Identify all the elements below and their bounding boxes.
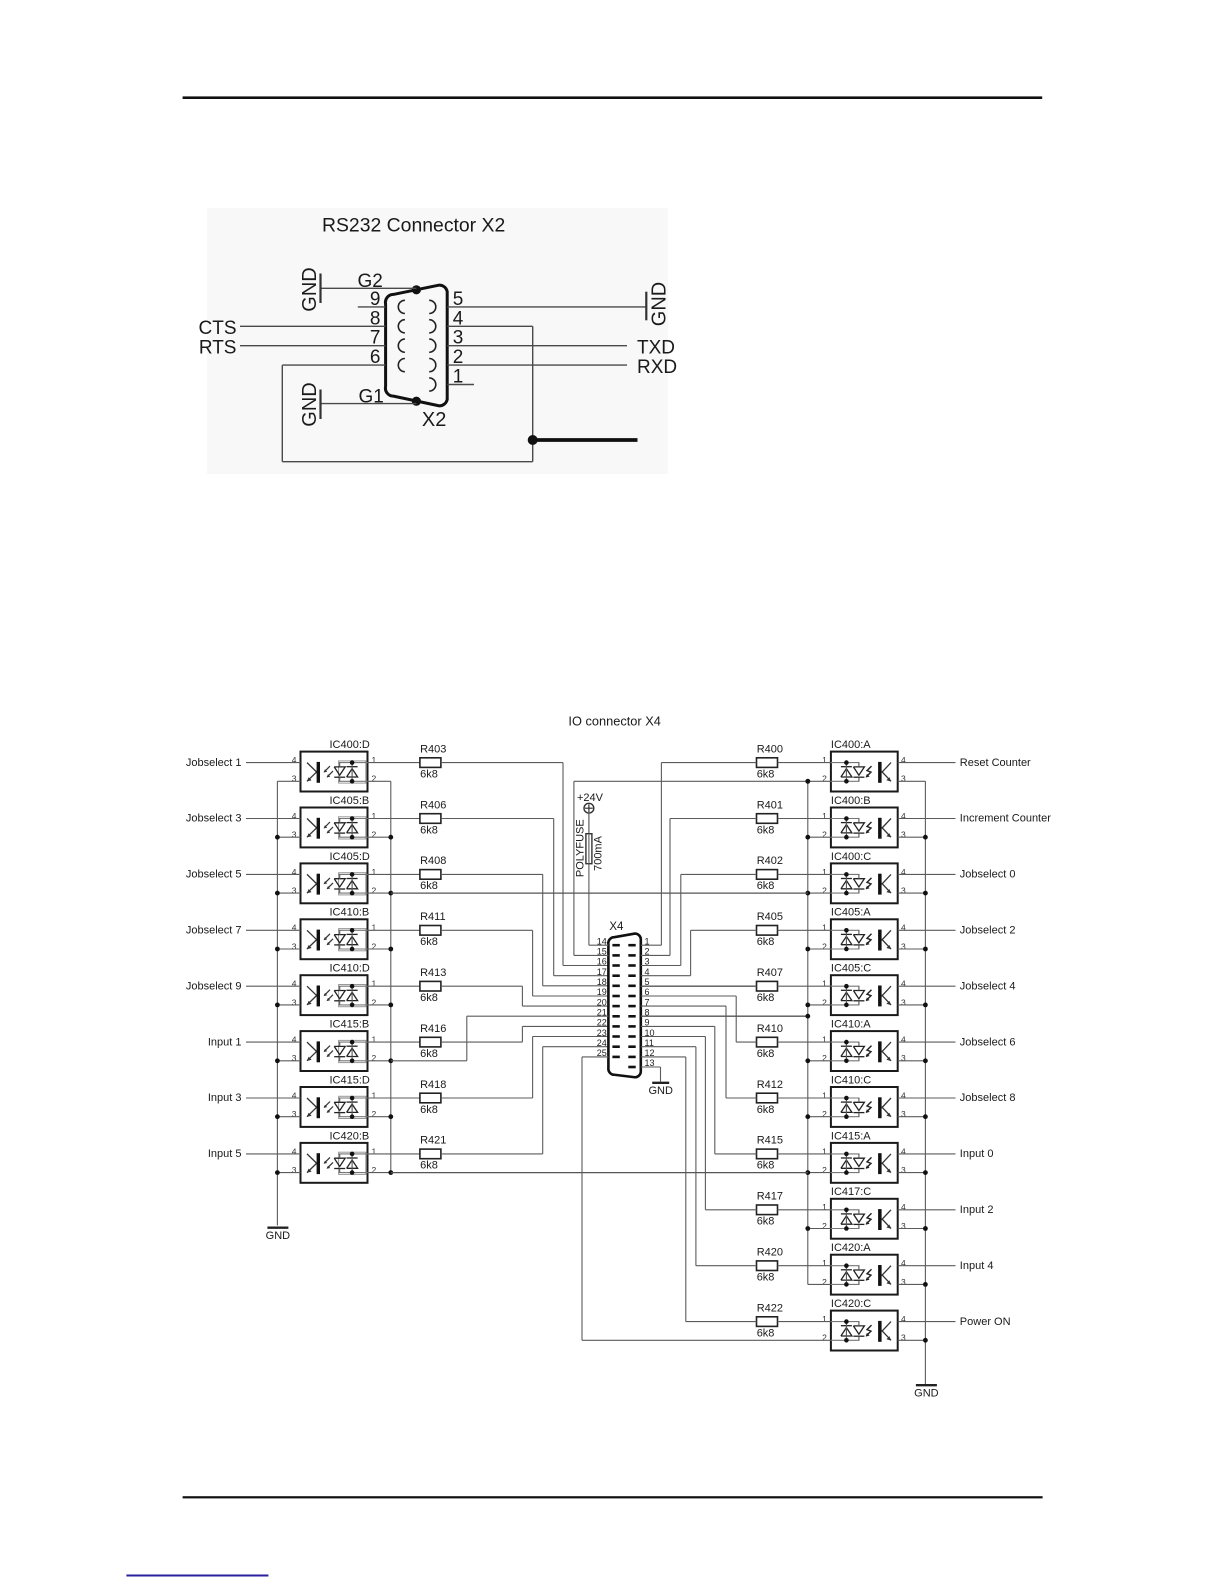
svg-text:GND: GND: [649, 282, 671, 326]
svg-text:IC405:D: IC405:D: [330, 851, 370, 863]
svg-text:1: 1: [822, 1314, 827, 1324]
svg-text:6k8: 6k8: [420, 1104, 438, 1116]
svg-text:3: 3: [901, 1333, 906, 1343]
svg-text:Jobselect 9: Jobselect 9: [186, 980, 242, 992]
svg-text:R418: R418: [420, 1079, 446, 1091]
svg-text:6k8: 6k8: [757, 992, 775, 1004]
svg-text:4: 4: [292, 1090, 297, 1100]
svg-text:23: 23: [597, 1028, 607, 1038]
svg-text:3: 3: [901, 997, 906, 1007]
svg-text:R413: R413: [420, 967, 446, 979]
svg-text:6k8: 6k8: [757, 824, 775, 836]
svg-text:Reset Counter: Reset Counter: [960, 757, 1031, 769]
svg-text:4: 4: [292, 755, 297, 765]
svg-text:1: 1: [822, 755, 827, 765]
svg-text:17: 17: [597, 967, 607, 977]
svg-text:2: 2: [822, 1109, 827, 1119]
svg-text:1: 1: [822, 923, 827, 933]
svg-text:1: 1: [453, 367, 464, 388]
svg-text:Jobselect 2: Jobselect 2: [960, 925, 1016, 937]
svg-text:R403: R403: [420, 743, 446, 755]
svg-text:6k8: 6k8: [757, 1327, 775, 1339]
svg-text:3: 3: [901, 1109, 906, 1119]
svg-text:3: 3: [292, 941, 297, 951]
svg-text:TXD: TXD: [637, 338, 675, 359]
svg-text:1: 1: [822, 1146, 827, 1156]
svg-text:700mA: 700mA: [593, 835, 605, 871]
svg-text:6k8: 6k8: [757, 768, 775, 780]
svg-text:2: 2: [372, 1109, 377, 1119]
svg-text:R410: R410: [757, 1023, 783, 1035]
svg-text:6k8: 6k8: [757, 1216, 775, 1228]
svg-text:6k8: 6k8: [757, 936, 775, 948]
svg-text:IC410:B: IC410:B: [330, 907, 370, 919]
svg-text:18: 18: [597, 977, 607, 987]
svg-text:4: 4: [901, 1090, 906, 1100]
svg-text:3: 3: [292, 1053, 297, 1063]
svg-text:2: 2: [822, 774, 827, 784]
svg-text:+24V: +24V: [577, 792, 604, 804]
svg-text:2: 2: [372, 997, 377, 1007]
svg-text:R411: R411: [420, 911, 445, 923]
svg-text:24: 24: [597, 1038, 607, 1048]
svg-text:1: 1: [372, 1035, 377, 1045]
svg-text:Jobselect 3: Jobselect 3: [186, 813, 242, 825]
svg-text:R400: R400: [757, 743, 783, 755]
svg-text:1: 1: [822, 1090, 827, 1100]
svg-text:IC405:B: IC405:B: [330, 795, 370, 807]
svg-text:6k8: 6k8: [420, 936, 438, 948]
svg-text:R420: R420: [757, 1247, 783, 1259]
svg-text:4: 4: [292, 811, 297, 821]
svg-text:Power ON: Power ON: [960, 1316, 1011, 1328]
svg-text:1: 1: [372, 867, 377, 877]
svg-text:1: 1: [372, 811, 377, 821]
svg-text:3: 3: [901, 886, 906, 896]
svg-text:2: 2: [372, 830, 377, 840]
svg-text:3: 3: [292, 830, 297, 840]
svg-text:20: 20: [597, 997, 607, 1007]
svg-text:Increment Counter: Increment Counter: [960, 813, 1051, 825]
svg-text:2: 2: [372, 1165, 377, 1175]
svg-text:3: 3: [901, 1277, 906, 1287]
svg-text:3: 3: [292, 886, 297, 896]
svg-text:G1: G1: [359, 387, 384, 408]
svg-text:1: 1: [822, 1202, 827, 1212]
svg-text:6k8: 6k8: [757, 880, 775, 892]
svg-text:GND: GND: [648, 1085, 673, 1097]
svg-text:4: 4: [292, 923, 297, 933]
svg-text:GND: GND: [914, 1388, 939, 1400]
svg-text:2: 2: [453, 347, 464, 368]
svg-text:Jobselect 6: Jobselect 6: [960, 1036, 1016, 1048]
svg-text:IC405:C: IC405:C: [831, 963, 871, 975]
svg-text:GND: GND: [299, 267, 321, 311]
svg-text:2: 2: [822, 1277, 827, 1287]
svg-text:4: 4: [901, 867, 906, 877]
svg-text:6k8: 6k8: [757, 1160, 775, 1172]
svg-text:IC400:C: IC400:C: [831, 851, 871, 863]
svg-text:19: 19: [597, 987, 607, 997]
svg-text:Input 3: Input 3: [208, 1092, 242, 1104]
svg-text:3: 3: [292, 1109, 297, 1119]
svg-text:G2: G2: [358, 271, 383, 292]
svg-text:IC410:D: IC410:D: [330, 963, 370, 975]
svg-text:R402: R402: [757, 855, 783, 867]
svg-text:1: 1: [372, 755, 377, 765]
svg-text:GND: GND: [299, 382, 321, 426]
svg-text:IC405:A: IC405:A: [831, 907, 871, 919]
svg-text:IC410:C: IC410:C: [831, 1074, 871, 1086]
svg-text:16: 16: [597, 957, 607, 967]
svg-text:6k8: 6k8: [757, 1272, 775, 1284]
svg-text:2: 2: [822, 1333, 827, 1343]
svg-text:Input 5: Input 5: [208, 1148, 242, 1160]
svg-text:RTS: RTS: [199, 338, 237, 359]
svg-text:1: 1: [372, 923, 377, 933]
svg-text:R412: R412: [757, 1079, 783, 1091]
svg-text:IC415:B: IC415:B: [330, 1019, 370, 1031]
svg-text:2: 2: [372, 886, 377, 896]
svg-text:4: 4: [901, 979, 906, 989]
svg-text:6k8: 6k8: [757, 1048, 775, 1060]
svg-text:6k8: 6k8: [420, 824, 438, 836]
svg-text:4: 4: [453, 308, 464, 329]
svg-text:3: 3: [901, 830, 906, 840]
svg-text:IO connector X4: IO connector X4: [568, 714, 660, 729]
svg-text:R407: R407: [757, 967, 783, 979]
svg-text:RXD: RXD: [637, 357, 677, 378]
svg-text:2: 2: [822, 830, 827, 840]
svg-text:3: 3: [901, 1053, 906, 1063]
svg-text:1: 1: [372, 1090, 377, 1100]
svg-text:RS232 Connector X2: RS232 Connector X2: [322, 215, 505, 237]
svg-text:4: 4: [901, 1314, 906, 1324]
svg-text:4: 4: [901, 1146, 906, 1156]
svg-text:3: 3: [292, 1165, 297, 1175]
svg-text:6k8: 6k8: [420, 1160, 438, 1172]
svg-text:Input 1: Input 1: [208, 1036, 242, 1048]
svg-text:Jobselect 5: Jobselect 5: [186, 869, 242, 881]
svg-text:Jobselect 8: Jobselect 8: [960, 1092, 1016, 1104]
svg-text:2: 2: [372, 1053, 377, 1063]
svg-text:IC420:A: IC420:A: [831, 1242, 871, 1254]
svg-text:5: 5: [645, 977, 650, 987]
svg-text:IC420:B: IC420:B: [330, 1130, 370, 1142]
svg-text:IC415:D: IC415:D: [330, 1074, 370, 1086]
svg-text:2: 2: [372, 941, 377, 951]
svg-text:Input 0: Input 0: [960, 1148, 994, 1160]
svg-text:6k8: 6k8: [757, 1104, 775, 1116]
svg-text:3: 3: [292, 997, 297, 1007]
svg-text:1: 1: [822, 1035, 827, 1045]
svg-text:GND: GND: [266, 1230, 291, 1242]
svg-text:6k8: 6k8: [420, 880, 438, 892]
svg-text:4: 4: [901, 923, 906, 933]
svg-text:POLYFUSE: POLYFUSE: [574, 819, 586, 877]
svg-text:Input 4: Input 4: [960, 1260, 994, 1272]
svg-text:R406: R406: [420, 799, 446, 811]
svg-text:IC420:C: IC420:C: [831, 1298, 871, 1310]
svg-text:2: 2: [822, 1221, 827, 1231]
svg-text:1: 1: [822, 979, 827, 989]
svg-text:4: 4: [292, 1146, 297, 1156]
svg-text:IC410:A: IC410:A: [831, 1019, 871, 1031]
svg-text:4: 4: [901, 1035, 906, 1045]
svg-text:CTS: CTS: [199, 318, 237, 339]
svg-text:Jobselect 1: Jobselect 1: [186, 757, 242, 769]
svg-text:6k8: 6k8: [420, 1048, 438, 1060]
svg-text:R417: R417: [757, 1191, 783, 1203]
svg-text:8: 8: [370, 308, 381, 329]
svg-text:4: 4: [292, 979, 297, 989]
svg-text:Jobselect 4: Jobselect 4: [960, 980, 1016, 992]
svg-text:Input 2: Input 2: [960, 1204, 994, 1216]
svg-text:2: 2: [822, 1165, 827, 1175]
svg-text:4: 4: [901, 811, 906, 821]
svg-text:IC400:A: IC400:A: [831, 739, 871, 751]
svg-text:1: 1: [822, 1258, 827, 1268]
svg-text:1: 1: [822, 867, 827, 877]
svg-text:IC415:A: IC415:A: [831, 1130, 871, 1142]
svg-text:3: 3: [292, 774, 297, 784]
svg-text:3: 3: [453, 328, 464, 349]
svg-text:IC417:C: IC417:C: [831, 1186, 871, 1198]
svg-text:X2: X2: [422, 409, 446, 431]
svg-text:1: 1: [822, 811, 827, 821]
svg-text:R422: R422: [757, 1302, 783, 1314]
svg-text:6k8: 6k8: [420, 768, 438, 780]
svg-text:R405: R405: [757, 911, 783, 923]
svg-text:R421: R421: [420, 1135, 446, 1147]
svg-text:1: 1: [372, 1146, 377, 1156]
svg-text:22: 22: [597, 1018, 607, 1028]
svg-text:9: 9: [370, 289, 381, 310]
svg-text:3: 3: [901, 774, 906, 784]
svg-text:2: 2: [822, 997, 827, 1007]
svg-text:1: 1: [372, 979, 377, 989]
svg-text:4: 4: [292, 867, 297, 877]
svg-text:4: 4: [901, 755, 906, 765]
svg-text:7: 7: [370, 328, 381, 349]
svg-text:4: 4: [292, 1035, 297, 1045]
svg-text:IC400:D: IC400:D: [330, 739, 370, 751]
svg-text:6k8: 6k8: [420, 992, 438, 1004]
svg-text:3: 3: [901, 1165, 906, 1175]
svg-text:5: 5: [453, 289, 464, 310]
svg-text:4: 4: [901, 1202, 906, 1212]
svg-text:R408: R408: [420, 855, 446, 867]
svg-text:2: 2: [372, 774, 377, 784]
svg-text:R415: R415: [757, 1135, 783, 1147]
svg-text:X4: X4: [609, 921, 624, 933]
svg-text:3: 3: [901, 1221, 906, 1231]
svg-text:2: 2: [822, 886, 827, 896]
svg-text:6: 6: [370, 347, 381, 368]
svg-text:2: 2: [822, 941, 827, 951]
svg-text:IC400:B: IC400:B: [831, 795, 871, 807]
svg-text:Jobselect 0: Jobselect 0: [960, 869, 1016, 881]
svg-text:4: 4: [901, 1258, 906, 1268]
svg-text:3: 3: [901, 941, 906, 951]
svg-text:2: 2: [822, 1053, 827, 1063]
svg-text:Jobselect 7: Jobselect 7: [186, 925, 242, 937]
svg-text:R401: R401: [757, 799, 783, 811]
svg-text:R416: R416: [420, 1023, 446, 1035]
